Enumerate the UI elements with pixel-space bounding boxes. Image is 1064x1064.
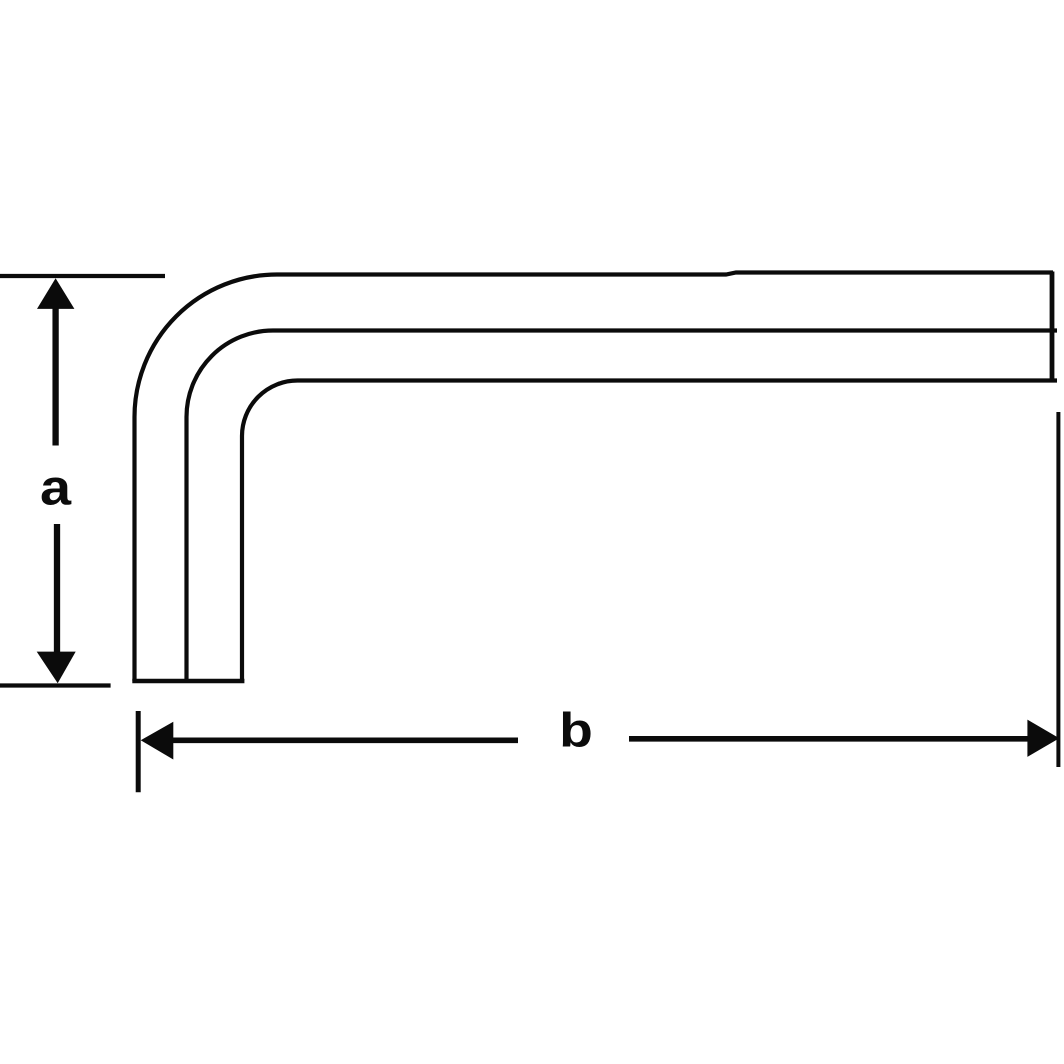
dimension a: upper shaft — [52, 308, 58, 446]
dimension b: right arrowhead (pointing right) — [1027, 720, 1059, 757]
dimension a: lower arrowhead (pointing down) — [37, 652, 76, 684]
svg-text:a: a — [40, 460, 72, 516]
dimension b: left arrowhead (pointing left) — [141, 722, 174, 760]
hex key outer edge (top + bend + left side) — [135, 273, 1054, 682]
dimension a: lower shaft — [54, 524, 60, 652]
dimension b: left line segment — [172, 737, 518, 743]
hex key inner edge (bottom of long arm + bend + right side of short arm) — [242, 381, 1057, 682]
dimension b: right extension tick — [1056, 412, 1060, 767]
dimension a: bottom extension tick — [0, 683, 111, 687]
hex key long-arm end cap (right) — [1050, 272, 1055, 383]
dimension b: left extension tick — [136, 711, 141, 792]
dimension b: right line segment — [629, 736, 1028, 742]
dimension a: top extension tick — [0, 274, 165, 278]
hex key middle facet line — [187, 331, 1058, 682]
svg-text:b: b — [559, 703, 593, 757]
dimension a: upper arrowhead (pointing up) — [37, 278, 74, 309]
hex key short-arm end cap (bottom) — [132, 679, 244, 684]
